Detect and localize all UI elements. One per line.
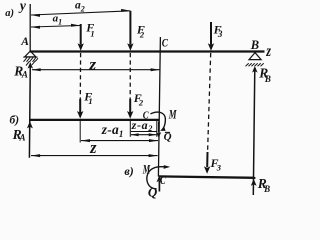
svg-text:а): а)	[5, 8, 14, 19]
beam AB (fig a)	[30, 50, 265, 52]
support A triangle	[25, 51, 36, 57]
support A hatching	[24, 57, 39, 65]
F1 extension line below beam	[79, 121, 81, 143]
beam (fig c, right part)	[159, 176, 256, 177]
reaction RB arrowhead (fig c)	[251, 179, 257, 186]
moment M arc (fig c)	[147, 167, 164, 189]
F2 extension line below beam	[129, 121, 131, 137]
reaction RA arrowhead (fig b)	[27, 121, 33, 128]
svg-text:Q: Q	[164, 131, 172, 143]
dimension z-a1 line	[81, 140, 158, 142]
svg-text:B: B	[250, 38, 259, 52]
svg-text:C: C	[160, 175, 166, 187]
svg-text:в): в)	[124, 164, 133, 178]
svg-text:б): б)	[10, 115, 20, 127]
svg-text:C: C	[162, 36, 169, 50]
dimension z (fig b) line	[31, 155, 158, 157]
svg-text:y: y	[18, 0, 27, 13]
force F1 (fig b)	[79, 99, 81, 113]
force F3 (fig c)	[206, 152, 208, 167]
force F3 (fig a)	[210, 22, 212, 45]
svg-text:Q: Q	[148, 184, 158, 199]
moment M arc (fig b)	[151, 112, 166, 130]
Q-bar label (fig b)	[165, 131, 170, 133]
svg-text:M: M	[142, 161, 150, 176]
z-a2 right extension line	[156, 121, 158, 137]
force F2 (fig b)	[129, 99, 131, 113]
support B hatching	[246, 63, 264, 66]
shear Q arrow (fig c)	[158, 181, 160, 192]
dimension a2 line	[31, 11, 130, 15]
dashed line under F1	[79, 53, 81, 99]
reaction RB arrow + right connecting line	[253, 68, 255, 195]
svg-text:z: z	[88, 57, 97, 74]
svg-text:z: z	[89, 138, 97, 157]
dashed line under F3	[208, 53, 211, 151]
z-a2 underline	[131, 131, 157, 133]
force F2 (fig a)	[129, 11, 131, 45]
y axis line	[29, 4, 31, 51]
dashed line under F2	[129, 53, 131, 99]
svg-text:F1: F1	[83, 89, 92, 105]
svg-text:M: M	[168, 106, 177, 121]
shear Q-bar arrow (fig b)	[158, 122, 160, 133]
svg-text:z: z	[265, 43, 271, 60]
dimension z-a2 arrows	[131, 134, 156, 136]
force F1 (fig a)	[80, 24, 82, 45]
section line through C	[158, 37, 160, 177]
svg-text:A: A	[20, 36, 29, 48]
support B triangle	[249, 53, 261, 60]
beam (fig b, left part)	[30, 119, 160, 121]
dimension a1 line	[31, 26, 80, 28]
support A ground line	[23, 56, 37, 58]
dimension z (fig a)	[32, 69, 160, 71]
reaction RA arrow + left connecting line	[28, 64, 31, 158]
